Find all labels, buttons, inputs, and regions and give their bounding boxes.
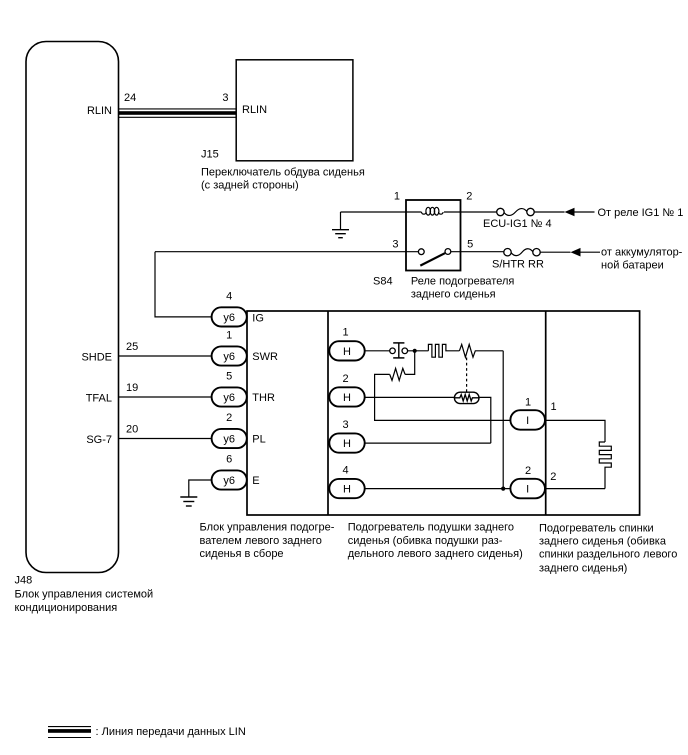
arrow from battery [571, 248, 601, 257]
svg-text:2: 2 [342, 373, 348, 385]
svg-text:у6: у6 [223, 351, 235, 363]
svg-text:сиденья в сборе: сиденья в сборе [200, 548, 284, 560]
caption seatback heater [539, 523, 677, 575]
divider cushion heater / seatback heater [545, 311, 547, 515]
svg-text:От реле IG1 № 1: От реле IG1 № 1 [598, 207, 684, 219]
svg-text:2: 2 [525, 465, 531, 477]
svg-text:у6: у6 [223, 392, 235, 404]
label from battery [601, 246, 683, 271]
svg-text:J48: J48 [15, 575, 33, 587]
svg-text:1: 1 [525, 397, 531, 409]
J15 switch box [236, 60, 353, 161]
wire SHDE [119, 355, 212, 357]
svg-text:H: H [343, 484, 351, 496]
label SHDE pin 25 [81, 341, 138, 363]
svg-text:20: 20 [126, 424, 138, 436]
svg-text:Подогреватель спинки: Подогреватель спинки [539, 523, 654, 535]
divider control box / cushion heater [327, 311, 329, 515]
connector H pin 1 [329, 327, 364, 361]
svg-text:6: 6 [226, 454, 232, 466]
svg-text:RLIN: RLIN [242, 104, 267, 116]
svg-text:S84: S84 [373, 276, 393, 288]
resistor branch to I1 [375, 352, 511, 420]
svg-text:кондиционирования: кондиционирования [15, 602, 118, 614]
svg-text:: Линия передачи данных LIN: : Линия передачи данных LIN [96, 726, 246, 738]
wire E to ground [189, 480, 212, 497]
legend LIN symbol [48, 727, 91, 738]
svg-text:1: 1 [394, 190, 400, 202]
svg-text:вателем левого заднего: вателем левого заднего [200, 535, 322, 547]
wire fuse to arrow (bottom) [540, 251, 570, 253]
svg-text:3: 3 [222, 92, 228, 104]
connector I pin 2 [510, 465, 545, 498]
svg-text:у6: у6 [223, 475, 235, 487]
svg-text:1: 1 [226, 330, 232, 342]
heater element (square wave) [428, 344, 459, 357]
svg-text:3: 3 [392, 239, 398, 251]
svg-text:H: H [343, 438, 351, 450]
svg-text:заднего сиденья (обивка: заднего сиденья (обивка [539, 535, 667, 547]
label from relay IG1 [598, 207, 684, 219]
svg-text:5: 5 [467, 239, 473, 251]
svg-text:2: 2 [550, 471, 556, 483]
wire fuse to arrow (top) [534, 211, 564, 213]
connector y6 pin 4 (IG) [212, 291, 247, 327]
svg-text:заднего сиденья: заднего сиденья [411, 289, 496, 301]
svg-text:2: 2 [226, 412, 232, 424]
label RLIN (J48 pin name) [87, 105, 112, 117]
svg-text:I: I [526, 484, 529, 496]
svg-text:Блок управления подогре-: Блок управления подогре- [200, 522, 335, 534]
svg-text:3: 3 [342, 419, 348, 431]
label J15 [201, 149, 219, 161]
seatback pin labels 1 2 [550, 401, 556, 483]
svg-text:SWR: SWR [252, 351, 278, 363]
relay coil L [422, 207, 444, 215]
svg-text:у6: у6 [223, 434, 235, 446]
wire down to I2 junction [502, 351, 504, 489]
svg-text:4: 4 [226, 291, 232, 303]
ground (E pin) [180, 497, 197, 506]
svg-text:S/HTR RR: S/HTR RR [492, 258, 544, 270]
connector H pin 4 [329, 464, 364, 498]
fuse S/HTR RR [504, 249, 540, 256]
wire SG-7 [119, 438, 212, 440]
wire seatback pin1 [546, 420, 605, 442]
pin 24 label [124, 92, 136, 104]
label fuse ECU-IG1 No4 [483, 218, 552, 230]
connector H pin 2 [329, 373, 364, 407]
caption control box [200, 522, 335, 560]
svg-text:PL: PL [252, 434, 265, 446]
pin names IG SWR THR PL E [252, 312, 278, 487]
svg-text:ECU-IG1 № 4: ECU-IG1 № 4 [483, 218, 552, 230]
svg-text:19: 19 [126, 382, 138, 394]
connector I pin 1 [510, 397, 545, 430]
ground (relay pin 1) [332, 212, 349, 238]
wire switch to junction [408, 350, 429, 352]
svg-text:спинки раздельного левого: спинки раздельного левого [539, 549, 677, 561]
connector y6 pin 5 (THR) [212, 371, 247, 407]
svg-text:от аккумулятор-: от аккумулятор- [601, 246, 683, 258]
connector y6 pin 1 (SWR) [212, 330, 247, 366]
svg-text:ной батареи: ной батареи [601, 259, 664, 271]
wire H4 to I2 [365, 488, 511, 490]
junction node B [501, 487, 505, 491]
thermal switch (cushion heater) [390, 343, 408, 358]
svg-text:2: 2 [466, 190, 472, 202]
svg-text:1: 1 [551, 401, 557, 413]
fuse ECU-IG1 No4 [497, 208, 535, 215]
svg-text:RLIN: RLIN [87, 105, 112, 117]
connector H pin 3 [329, 419, 364, 453]
label fuse S/HTR RR [492, 258, 544, 270]
wire LIN data line (triple) [119, 109, 237, 117]
svg-text:Подогреватель подушки заднего: Подогреватель подушки заднего [348, 522, 514, 534]
relay switch contacts [418, 249, 450, 266]
svg-text:заднего сиденья): заднего сиденья) [539, 562, 627, 574]
svg-text:25: 25 [126, 341, 138, 353]
wire relay coil row [341, 211, 498, 213]
wire seatback pin2 [546, 488, 605, 490]
caption relay S84 [411, 276, 514, 301]
wire TFAL [119, 396, 212, 398]
svg-text:4: 4 [342, 464, 348, 476]
svg-text:H: H [343, 392, 351, 404]
label S84 [373, 276, 393, 288]
dashed thermal coupling [466, 358, 468, 392]
connector y6 pin 6 (E) [212, 454, 247, 490]
svg-text:I: I [526, 415, 529, 427]
wire IG feed (relay pin3 to IG oval) [155, 252, 212, 317]
label J48 [15, 575, 33, 587]
svg-text:(с задней стороны): (с задней стороны) [201, 179, 299, 191]
svg-text:Блок управления системой: Блок управления системой [15, 589, 154, 601]
svg-text:24: 24 [124, 92, 136, 104]
wire sensor to H3 [479, 397, 491, 443]
label SG-7 pin 20 [86, 424, 138, 446]
wire H3 [365, 442, 491, 444]
label RLIN (J15 pin name) [242, 104, 267, 116]
wire H2 to sensor [365, 396, 455, 398]
svg-text:H: H [343, 346, 351, 358]
svg-text:Переключатель обдува сиденья: Переключатель обдува сиденья [201, 166, 365, 178]
relay S84 box [406, 200, 461, 271]
caption J48 [15, 589, 154, 614]
svg-text:SG-7: SG-7 [86, 434, 112, 446]
svg-text:Реле подогревателя: Реле подогревателя [411, 276, 514, 288]
svg-text:5: 5 [226, 371, 232, 383]
svg-text:SHDE: SHDE [81, 351, 112, 363]
wire H1 to switch [365, 350, 390, 352]
svg-text:1: 1 [342, 327, 348, 339]
ECU J48 block outline [26, 42, 119, 573]
seatback heater element [599, 442, 611, 489]
caption J15 [201, 166, 365, 191]
junction node A [413, 349, 417, 353]
svg-text:J15: J15 [201, 149, 219, 161]
svg-text:E: E [252, 475, 259, 487]
relay pin labels 1 2 3 5 [392, 190, 473, 250]
arrow from relay IG1 [565, 208, 595, 217]
heater assembly outer box [247, 311, 640, 515]
svg-text:THR: THR [252, 392, 275, 404]
svg-text:IG: IG [252, 312, 264, 324]
wire relay switch row (to IG path) [155, 251, 504, 253]
temperature sensor (thermistor oval) [454, 392, 479, 403]
label TFAL pin 19 [86, 382, 139, 404]
connector y6 pin 2 (PL) [212, 412, 247, 448]
svg-text:TFAL: TFAL [86, 392, 112, 404]
svg-text:дельного левого заднего сидень: дельного левого заднего сиденья) [348, 548, 523, 560]
resistor (series with heater) [459, 344, 503, 357]
svg-text:сиденья (обивка подушки раз-: сиденья (обивка подушки раз- [348, 535, 503, 547]
caption cushion heater [348, 522, 523, 560]
legend text [96, 726, 246, 738]
pin 3 label (J15) [222, 92, 228, 104]
svg-text:у6: у6 [223, 312, 235, 324]
